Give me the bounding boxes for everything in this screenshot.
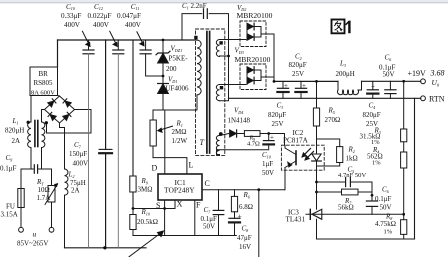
svg-text:50V: 50V (262, 169, 274, 177)
wire: RTN rail (229, 97, 421, 99)
zener VDZ1 P5KE200 (158, 53, 169, 63)
svg-text:150μF: 150μF (69, 150, 87, 158)
wire: W1 bottom (220, 55, 229, 57)
svg-text:1.7A: 1.7A (37, 194, 51, 202)
svg-text:1μF: 1μF (262, 160, 273, 168)
svg-text:820μF: 820μF (268, 111, 286, 119)
svg-text:8A 600V: 8A 600V (31, 89, 55, 96)
wire: W3 top to VD4 (220, 134, 230, 136)
input terminal circles (19, 227, 24, 232)
svg-text:4.7nF 50V: 4.7nF 50V (338, 172, 366, 179)
svg-text:0.1μF: 0.1μF (0, 165, 17, 173)
svg-text:0.022μF: 0.022μF (88, 12, 112, 20)
svg-text:20.5kΩ: 20.5kΩ (137, 218, 158, 226)
bridge diode BR (63, 112, 71, 120)
opto light arrows (303, 149, 311, 157)
wire: C12 long return (117, 54, 119, 248)
rectifier VD2 MBR20100 dashed package (240, 21, 266, 47)
resistor R5 270 (316, 81, 318, 108)
svg-text:25V: 25V (272, 120, 284, 128)
svg-text:200: 200 (166, 65, 177, 73)
capacitor C10 1uF 50V (268, 134, 270, 141)
svg-text:25V: 25V (292, 70, 304, 78)
arrowhead: rail diagonal (157, 230, 165, 237)
svg-text:BR: BR (39, 70, 49, 78)
resistor R2 1k parallel branch (317, 139, 340, 147)
wire: D pin vertical (164, 110, 166, 174)
resistor R7 56k branch (317, 191, 342, 193)
capacitor C3 820uF (300, 81, 302, 88)
wire: fuse to C9 node (20, 169, 22, 189)
svg-text:50V: 50V (383, 71, 395, 79)
capacitor C7 150uF 400V (99, 148, 112, 150)
figure label 图1 (332, 20, 345, 34)
wire: clamp bottom to drain node (162, 94, 164, 111)
choke phase dots (27, 121, 30, 124)
wire: left primary ground rail (65, 247, 147, 249)
divider column from +V (403, 81, 405, 129)
svg-text:2A: 2A (12, 137, 21, 145)
resistor R10 20.5k (132, 209, 134, 215)
svg-text:2MΩ: 2MΩ (172, 128, 187, 136)
svg-text:10Ω: 10Ω (38, 186, 50, 194)
svg-text:+: + (270, 133, 274, 141)
resistor R8 4.75k (403, 214, 405, 219)
choke L1 core (34, 121, 36, 147)
X pin (174, 200, 176, 209)
secondary W2 (216, 84, 219, 100)
svg-text:200μH: 200μH (336, 70, 355, 78)
capacitor C8 47uF 16V (229, 217, 240, 219)
svg-text:S: S (156, 201, 160, 210)
wire: IC ground rail (133, 235, 236, 237)
wire: VD3 out joins plus bus (261, 76, 274, 78)
svg-text:50V: 50V (380, 203, 392, 211)
svg-text:820μH: 820μH (5, 127, 24, 135)
fuse FU (18, 189, 24, 208)
opto phototransistor (295, 151, 297, 165)
wire: W2 top to VD3 (220, 84, 246, 86)
svg-text:FU: FU (6, 203, 15, 211)
svg-text:+19V: +19V (408, 69, 427, 78)
svg-text:1%: 1% (372, 159, 381, 166)
wire: diagonal rail jog with arrowhead (129, 231, 163, 256)
svg-text:3MΩ: 3MΩ (138, 186, 153, 194)
output terminal +19V (421, 79, 426, 84)
bridge diode TL (48, 99, 56, 107)
svg-text:56kΩ: 56kΩ (338, 204, 354, 212)
inductor L3 200uH (337, 81, 339, 90)
S pin (164, 200, 166, 236)
capacitor C10 0.33uF (88, 40, 90, 50)
bridge diode TR (63, 99, 71, 107)
bridge diode BL (48, 112, 56, 120)
thermistor RT (48, 186, 55, 203)
svg-text:1/2W: 1/2W (172, 137, 188, 145)
svg-text:820μF: 820μF (363, 111, 381, 119)
bias winding W3 (216, 135, 219, 155)
svg-text:270Ω: 270Ω (325, 116, 341, 124)
svg-text:85V~265V: 85V~265V (17, 240, 48, 248)
svg-text:MBR20100: MBR20100 (237, 11, 273, 20)
svg-text:P5KE-: P5KE- (169, 55, 189, 63)
svg-text:+: + (284, 82, 288, 90)
wire: AC input terminal L lead (20, 208, 22, 228)
svg-text:u: u (33, 230, 37, 239)
capacitor C6 0.1uF comp (371, 195, 373, 201)
choke L1 right winding line (41, 110, 43, 123)
svg-text:F: F (196, 201, 201, 210)
resistor R9 4.7 bias (238, 133, 245, 135)
wire: bridge bottom vertex to L2 (60, 123, 65, 169)
resistor R3 31.5k (401, 129, 407, 142)
svg-text:4.7Ω: 4.7Ω (247, 140, 260, 147)
resistor R4 562 (401, 152, 407, 168)
svg-text:400V: 400V (125, 21, 142, 29)
wire: clamp chain from rail (162, 40, 164, 53)
output terminal RTN (421, 96, 426, 101)
resistor R11 3M column (132, 40, 134, 176)
transformer phase dots (194, 36, 197, 39)
capacitor C2 820uF (282, 81, 284, 88)
wire: drop from C pin node to bottom edge (258, 190, 260, 257)
choke L1 left winding line (30, 96, 32, 123)
svg-text:4.75kΩ: 4.75kΩ (375, 220, 396, 228)
transformer core (206, 32, 208, 154)
capacitor C1 2.2nF plates (203, 9, 205, 19)
svg-text:0.33μF: 0.33μF (61, 12, 81, 20)
BR label box (30, 67, 58, 96)
svg-text:RS805: RS805 (34, 79, 54, 87)
svg-text:TL431: TL431 (286, 216, 306, 224)
wire: rail corner down through BR box to bridge (57, 40, 59, 67)
svg-text:1%: 1% (384, 228, 393, 235)
rectifier VD3 MBR20100 dashed package (240, 64, 266, 90)
svg-text:0.047μF: 0.047μF (117, 12, 141, 20)
wire: AC input terminal N lead (51, 202, 53, 227)
wire: X pin jog (133, 208, 175, 210)
svg-text:MBR20100: MBR20100 (235, 55, 271, 64)
capacitor C5 4.7nF branch (317, 181, 346, 183)
svg-text:75μH: 75μH (70, 179, 86, 187)
wire: C pin horizontal (202, 189, 285, 191)
svg-text:47μF: 47μF (237, 234, 252, 242)
wire: L2 to left ground rail (64, 195, 66, 248)
transformer primary winding (197, 40, 201, 95)
svg-text:L: L (189, 161, 194, 170)
svg-text:C: C (205, 179, 210, 188)
wire: C9 branch horizontal (21, 168, 33, 170)
capacitor C7 0.1uF 50V F-pin (218, 190, 220, 211)
IC1 TOP248Y box (158, 174, 202, 200)
svg-text:X: X (177, 200, 183, 209)
capacitor C9 plates (33, 165, 35, 173)
svg-text:C1 2.2nF: C1 2.2nF (182, 2, 207, 10)
transformer dashed box (196, 29, 225, 156)
secondary W1 (216, 39, 219, 56)
svg-text:400V: 400V (73, 160, 89, 168)
capacitor C6out 0.1uF 50V (389, 81, 391, 90)
svg-text:50V: 50V (203, 222, 215, 230)
svg-text:1%: 1% (371, 139, 380, 146)
svg-text:RTN: RTN (429, 94, 445, 103)
opto LED (316, 145, 318, 154)
top page edge band (0, 0, 448, 3)
resistor R1 2M 1/2W (152, 110, 154, 120)
svg-text:0.1μF: 0.1μF (375, 195, 392, 203)
inductor L2 75uH (65, 169, 69, 195)
wire: C11 branch to clamp node (146, 54, 163, 76)
svg-text:1kΩ: 1kΩ (346, 155, 358, 163)
svg-text:UF4006: UF4006 (166, 85, 189, 93)
wire: bias return line (217, 150, 268, 155)
svg-text:TOP248Y: TOP248Y (164, 186, 195, 195)
wire: +V rail left section (274, 80, 338, 82)
wire: W2 bottom to RTN rail (220, 98, 229, 100)
label arrows for C10 C12 C11 (82, 31, 173, 132)
TL431 IC3 (316, 170, 318, 209)
wire: C10 long return (88, 54, 90, 248)
wire: RTN drop (414, 98, 416, 239)
resistor R6 6.8 (234, 190, 236, 197)
bridge rectifier diamond (45, 96, 75, 123)
optocoupler IC2 PC817A dashed box (281, 145, 324, 170)
svg-text:400V: 400V (93, 21, 110, 29)
capacitor C12 0.022uF (117, 40, 119, 50)
svg-text:+: + (238, 211, 242, 220)
wire: secondary lower rail (317, 238, 415, 240)
capacitor C11 0.047uF (145, 40, 147, 50)
wire: top DC+ rail (58, 39, 198, 41)
wire: drain horizontal (153, 109, 197, 111)
wire: R1 to L pin (153, 158, 187, 174)
wire: bias feed to opto collector (284, 134, 286, 146)
svg-text:T: T (200, 138, 205, 147)
F pin (194, 200, 196, 236)
wire: primary bottom to drain (196, 95, 198, 110)
diode VD1 UF4006 (158, 83, 169, 85)
wire: bridge left vertex to right winding (42, 109, 45, 111)
svg-text:+: + (371, 83, 375, 91)
svg-text:1N4148: 1N4148 (228, 117, 251, 125)
wire: C1 Y-cap loop (182, 14, 202, 40)
wire: opto emitter to C pin wire (284, 170, 286, 190)
diode VD4 1N4148 (229, 133, 238, 135)
wire: bridge right vertex loop to winding dot (47, 110, 92, 134)
wire: bulk cap line (105, 40, 107, 149)
svg-text:6.8Ω: 6.8Ω (239, 203, 253, 211)
svg-text:16V: 16V (239, 243, 251, 251)
wire: RT to C9 node (51, 169, 53, 186)
capacitor C4 820uF 25V (372, 81, 374, 90)
svg-text:D: D (152, 164, 158, 173)
wire: REF line (306, 213, 404, 215)
wire: VD2 out to plus bus (261, 34, 274, 81)
svg-text:+: + (302, 82, 306, 90)
svg-text:PC817A: PC817A (283, 137, 309, 145)
svg-text:3.15A: 3.15A (1, 210, 18, 218)
wire: +V rail right section (362, 80, 421, 82)
svg-text:820μF: 820μF (289, 61, 307, 69)
svg-text:3.68: 3.68 (430, 69, 445, 78)
svg-text:400V: 400V (64, 21, 81, 29)
svg-text:2A: 2A (71, 187, 80, 195)
wire: W1 top to VD2 (220, 39, 246, 41)
